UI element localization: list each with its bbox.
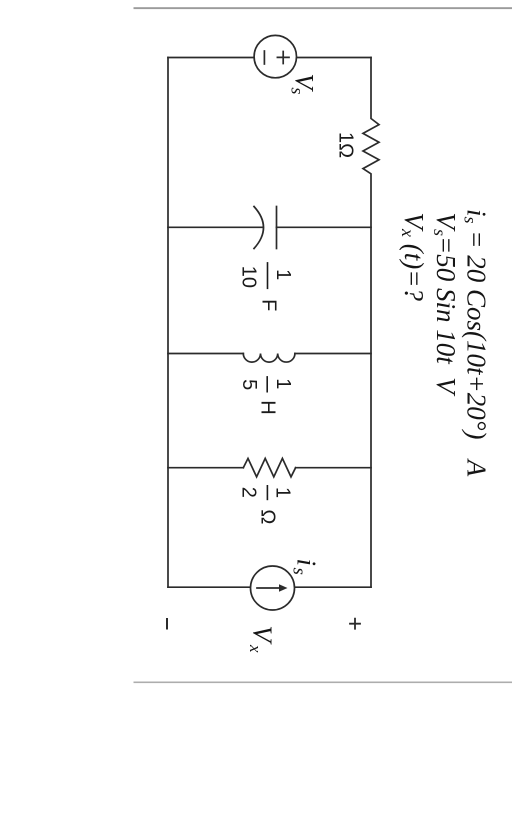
svg-text:1: 1 <box>271 487 293 498</box>
svg-text:Vs=50 Sin 10t V: Vs=50 Sin 10t V <box>430 213 461 398</box>
svg-text:1Ω: 1Ω <box>335 132 357 158</box>
svg-text:5: 5 <box>238 379 260 390</box>
svg-text:2: 2 <box>238 487 260 498</box>
svg-text:1: 1 <box>272 269 294 280</box>
svg-text:is = 20 Cos(10t+20°) A: is = 20 Cos(10t+20°) A <box>461 209 492 477</box>
svg-text:is: is <box>289 559 322 575</box>
svg-text:F: F <box>257 299 279 311</box>
svg-text:1: 1 <box>272 378 294 389</box>
svg-text:Ω: Ω <box>256 509 278 524</box>
svg-text:Vx: Vx <box>246 626 278 654</box>
svg-text:Vs: Vs <box>288 74 319 95</box>
svg-text:10: 10 <box>238 266 260 288</box>
svg-text:Vx (t)=?: Vx (t)=? <box>398 213 429 302</box>
svg-text:H: H <box>257 400 279 414</box>
